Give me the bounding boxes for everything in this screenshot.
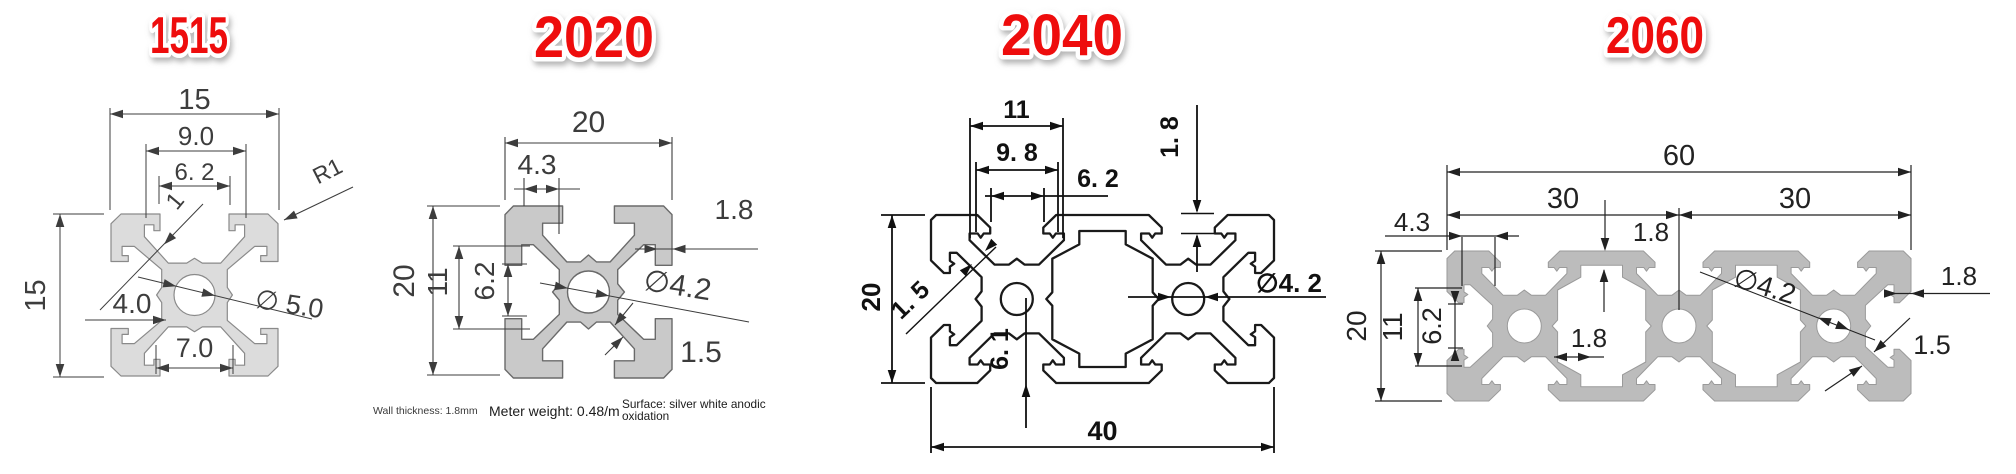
2040 dim 1.5 diagonal: [906, 247, 996, 334]
svg-text:11: 11: [422, 267, 453, 296]
profile 2060 cross-section: [1447, 251, 1911, 401]
svg-text:6.2: 6.2: [469, 262, 500, 301]
profile 1515 cross-section: [111, 214, 278, 376]
svg-text:6. 1: 6. 1: [986, 328, 1014, 370]
svg-text:60: 60: [1663, 140, 1695, 172]
svg-text:1.8: 1.8: [1941, 261, 1977, 291]
2040 dim dia 4.2: [1128, 296, 1326, 298]
svg-text:1515: 1515: [150, 7, 228, 65]
svg-text:∅4.2: ∅4.2: [641, 264, 713, 307]
svg-text:6. 2: 6. 2: [174, 159, 214, 186]
svg-text:9. 8: 9. 8: [996, 139, 1038, 167]
svg-text:1.8: 1.8: [1633, 217, 1669, 247]
1515 leader R1: [284, 187, 353, 220]
2020 leader 1.5: [615, 303, 633, 325]
2020 dim 20 top: [504, 137, 506, 200]
svg-text:30: 30: [1779, 183, 1811, 215]
svg-text:6. 2: 6. 2: [1077, 165, 1119, 193]
svg-text:40: 40: [1087, 416, 1117, 446]
svg-text:R1: R1: [308, 153, 346, 190]
1515 dim 9.0: [145, 144, 147, 218]
2040 dim 6.1: [1025, 298, 1027, 428]
2060 dim 1.5: [1874, 318, 1910, 352]
2060 dim 60: [1446, 165, 1448, 250]
1515 leader dia 5.0: [138, 277, 312, 319]
2060 dim 1.8 right: [1884, 293, 1990, 295]
svg-text:30: 30: [1547, 183, 1579, 215]
svg-text:20: 20: [856, 283, 886, 312]
1515 dim 6.2: [158, 176, 160, 204]
svg-text:oxidation: oxidation: [622, 409, 669, 423]
2040 dim 40 bottom: [930, 387, 932, 453]
1515 dim 15 top: [109, 108, 111, 210]
2040 dim 1.8 vertical: [1196, 105, 1198, 211]
2060 dims 30 30: [1678, 208, 1680, 310]
svg-text:4.0: 4.0: [113, 288, 152, 319]
svg-text:4.3: 4.3: [518, 149, 557, 180]
svg-text:1: 1: [161, 187, 190, 215]
svg-text:20: 20: [572, 106, 605, 139]
svg-text:6.2: 6.2: [1417, 307, 1447, 345]
1515 leader 4.0: [85, 319, 166, 321]
2060 dim 1.8 top: [1604, 200, 1606, 249]
svg-text:2040: 2040: [1001, 3, 1123, 68]
2020 dim 1.8: [635, 248, 758, 250]
svg-text:4.3: 4.3: [1394, 207, 1430, 237]
1515 leader 1 (lip thickness): [100, 204, 203, 310]
svg-text:11: 11: [1003, 96, 1030, 124]
2060 leader dia 4.2: [1700, 272, 1875, 340]
svg-text:1.5: 1.5: [1913, 330, 1951, 360]
svg-text:2020: 2020: [534, 5, 654, 70]
svg-text:9.0: 9.0: [178, 121, 214, 151]
2020 dim 4.3: [523, 178, 525, 206]
1515 dim 7.0: [155, 345, 157, 374]
2020 dim 11: [453, 245, 530, 247]
svg-text:15: 15: [178, 84, 210, 116]
profile 2040 cross-section: [931, 215, 1274, 383]
svg-text:20: 20: [388, 264, 421, 297]
2040 dim 6.2: [990, 188, 992, 222]
svg-text:1.5: 1.5: [680, 336, 722, 369]
svg-text:20: 20: [1341, 310, 1372, 341]
2040 dim 11: [969, 118, 971, 238]
svg-text:15: 15: [20, 279, 52, 311]
svg-text:Wall thickness: 1.8mm: Wall thickness: 1.8mm: [373, 405, 478, 417]
2020 dim 20 left: [427, 205, 500, 207]
2020 leader dia 4.2: [540, 283, 749, 322]
1515 dim 15 left: [53, 213, 104, 215]
svg-text:∅ 5.0: ∅ 5.0: [253, 284, 325, 324]
2060 dim 11: [1415, 287, 1462, 289]
2040 dim 9.8: [975, 162, 977, 232]
svg-text:1. 5: 1. 5: [886, 276, 936, 325]
svg-text:7.0: 7.0: [176, 333, 214, 363]
svg-text:Meter weight: 0.48/m: Meter weight: 0.48/m: [489, 403, 620, 419]
2060 dim 6.2: [1448, 303, 1463, 305]
svg-text:11: 11: [1377, 312, 1408, 341]
svg-text:2060: 2060: [1606, 7, 1704, 65]
svg-text:1.8: 1.8: [715, 194, 754, 225]
profile 2020 cross-section: [505, 206, 672, 378]
svg-text:1.8: 1.8: [1571, 323, 1607, 353]
2060 dim 4.3: [1461, 237, 1463, 286]
2040 dim 20 left: [881, 214, 925, 216]
svg-text:∅4. 2: ∅4. 2: [1256, 268, 1322, 298]
svg-text:1. 8: 1. 8: [1156, 116, 1184, 158]
2060 dim 1.8 middle: [1554, 356, 1604, 358]
2060 dim 20 left: [1375, 250, 1442, 252]
2020 dim 6.2 left: [502, 263, 527, 265]
